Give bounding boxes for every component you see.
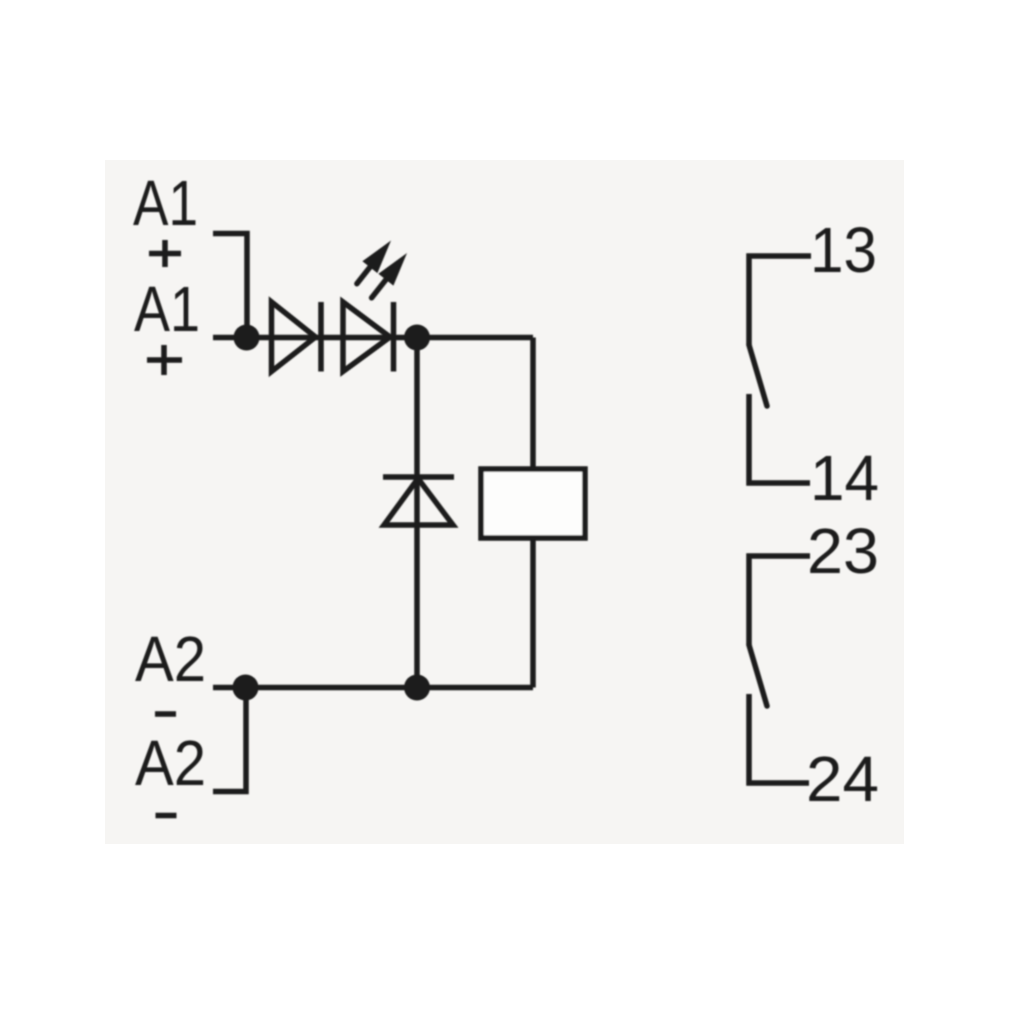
contact terminal label 13	[810, 214, 877, 286]
polarity - (upper)	[155, 711, 176, 717]
wire contact 14 lead	[749, 394, 810, 483]
polarity + (upper)	[149, 240, 181, 267]
wire A1 main horizontal	[213, 335, 533, 341]
svg-text:14: 14	[810, 442, 879, 514]
freewheeling diode D3	[383, 477, 454, 525]
LED emission arrows	[357, 241, 407, 298]
terminal label A1 (lower)	[134, 273, 200, 345]
wire A1 upper stub	[213, 234, 247, 338]
diode D1	[272, 302, 322, 372]
polarity - (lower)	[156, 813, 177, 819]
svg-text:A2: A2	[135, 727, 206, 799]
svg-text:A2: A2	[135, 623, 206, 695]
node junction A2 middle	[404, 675, 430, 701]
wire contact 23 lead	[749, 556, 810, 645]
contact terminal label 23	[807, 515, 879, 587]
node junction A2 left	[233, 675, 259, 701]
wire relay coil bottom	[530, 538, 536, 688]
svg-text:23: 23	[807, 515, 879, 587]
contact blade 13-14	[749, 345, 767, 406]
wire A2 main horizontal	[213, 685, 533, 691]
svg-text:A1: A1	[134, 273, 200, 345]
terminal label A2 (lower)	[135, 727, 206, 799]
terminal label A1 (upper)	[133, 167, 198, 239]
polarity + (lower)	[147, 345, 182, 375]
terminal label A2 (upper)	[135, 623, 206, 695]
svg-text:A1: A1	[133, 167, 198, 239]
svg-text:13: 13	[810, 214, 877, 286]
wire A2 lower stub	[213, 688, 246, 792]
wire contact 24 lead	[749, 694, 809, 783]
node junction LED cathode	[404, 325, 430, 351]
schematic panel background	[105, 160, 904, 844]
contact terminal label 24	[806, 743, 879, 815]
wire freewheeling branch vertical	[414, 338, 420, 688]
contact blade 23-24	[749, 645, 767, 706]
node junction A1 left	[234, 325, 260, 351]
wire contact 13 lead	[749, 256, 811, 345]
wire to relay coil (down right)	[530, 338, 536, 470]
svg-text:24: 24	[806, 743, 879, 815]
LED D2	[343, 302, 394, 372]
contact terminal label 14	[810, 442, 879, 514]
relay coil K1	[481, 469, 585, 538]
